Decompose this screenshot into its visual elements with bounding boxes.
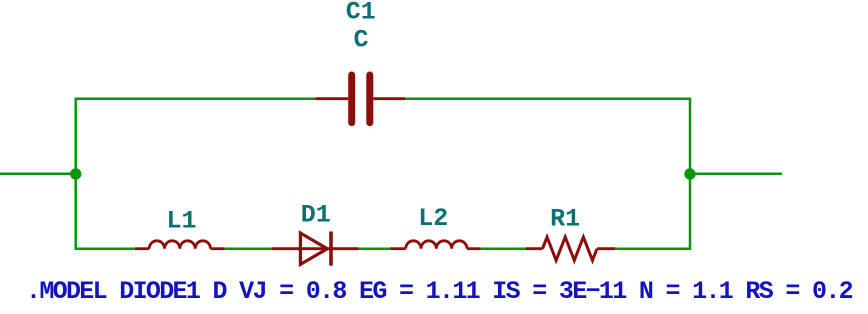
- wire right vertical: [689, 98, 692, 250]
- resistor R1 zigzag: [543, 237, 598, 260]
- diode D1 cathode bar: [329, 232, 333, 266]
- inductor L2 left lead: [391, 247, 406, 250]
- inductor L2 right lead: [467, 247, 481, 250]
- svg-text:C: C: [353, 25, 368, 54]
- wire left vertical: [74, 98, 77, 250]
- svg-text:.MODEL DIODE1 D VJ = 0.8 EG =: .MODEL DIODE1 D VJ = 0.8 EG = 1.11 IS = …: [26, 277, 853, 306]
- capacitor C1 right lead: [373, 97, 405, 100]
- junction node right: [684, 168, 695, 179]
- wire bottom rail segment 5: [615, 247, 691, 250]
- svg-text:D1: D1: [301, 201, 331, 230]
- diode D1 triangle: [300, 233, 327, 264]
- wire bottom rail segment 1: [75, 247, 135, 250]
- wire bottom rail segment 2: [225, 247, 273, 250]
- capacitor C1 left lead: [316, 97, 349, 100]
- inductor L1 right lead: [211, 247, 225, 250]
- wire right port lead: [690, 173, 782, 176]
- inductor L1 left lead: [135, 247, 149, 250]
- capacitor C1 left plate: [348, 75, 355, 123]
- svg-text:L1: L1: [166, 207, 196, 236]
- diode D1 anode lead: [272, 247, 331, 250]
- resistor R1 left lead: [526, 247, 543, 250]
- svg-text:L2: L2: [418, 204, 448, 233]
- wire top rail left segment: [75, 97, 316, 100]
- svg-text:C1: C1: [346, 0, 376, 26]
- diode D1 cathode lead: [331, 247, 359, 250]
- inductor L2 coils: [406, 241, 467, 249]
- wire bottom rail segment 4: [481, 247, 527, 250]
- capacitor C1 right plate: [366, 75, 373, 123]
- inductor L1 coils: [149, 241, 210, 249]
- wire left port lead: [0, 173, 76, 176]
- junction node left: [70, 168, 81, 179]
- wire bottom rail segment 3: [359, 247, 391, 250]
- svg-text:R1: R1: [550, 204, 580, 233]
- resistor R1 right lead: [597, 247, 615, 250]
- wire top rail right segment: [405, 97, 691, 100]
